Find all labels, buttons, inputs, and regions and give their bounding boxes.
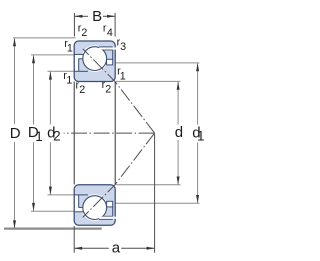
svg-text:r3: r3 [117, 36, 127, 53]
svg-text:r2: r2 [78, 23, 88, 40]
svg-text:r4: r4 [103, 23, 113, 40]
svg-text:B: B [92, 8, 102, 25]
svg-text:r1: r1 [63, 70, 72, 87]
svg-text:d: d [175, 124, 183, 141]
svg-text:d2: d2 [47, 124, 61, 143]
svg-text:a: a [112, 239, 121, 256]
svg-text:D: D [10, 125, 21, 142]
svg-text:D1: D1 [28, 124, 43, 144]
svg-text:d1: d1 [192, 124, 204, 143]
svg-text:r1: r1 [117, 66, 126, 83]
svg-text:r1: r1 [64, 38, 73, 55]
